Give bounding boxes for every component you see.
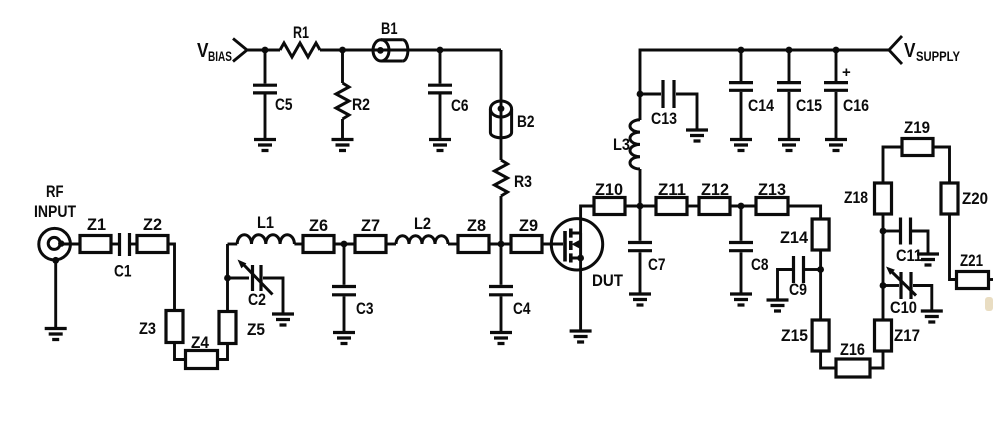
wire Z12 to Z13 xyxy=(730,205,756,208)
ground C4 xyxy=(490,333,512,344)
node junction C4 R3 xyxy=(498,241,505,248)
ground C11 xyxy=(917,254,939,265)
svg-text:DUT: DUT xyxy=(592,272,623,290)
node junction C8 xyxy=(738,203,745,210)
ground R2 xyxy=(332,140,354,151)
wire DUT drain up to Z10 xyxy=(581,206,594,233)
ferrite bead B2 xyxy=(490,101,534,138)
capacitor C1 xyxy=(114,233,132,281)
svg-text:SUPPLY: SUPPLY xyxy=(916,49,960,64)
wire C1 to Z2 xyxy=(131,243,137,246)
resistor R1 xyxy=(280,24,320,57)
node junction C13 tap xyxy=(637,91,644,98)
wire Z10 to Z11 xyxy=(625,205,656,208)
svg-text:C2: C2 xyxy=(248,291,266,309)
ground C3 xyxy=(333,333,355,344)
capacitor C10 variable xyxy=(883,267,932,318)
capacitor C7 xyxy=(628,206,666,293)
ground C15 xyxy=(778,140,800,151)
wire corner to L1 xyxy=(228,243,238,246)
svg-text:Z16: Z16 xyxy=(840,341,865,359)
svg-text:L3: L3 xyxy=(613,136,630,154)
ground RF input xyxy=(45,329,67,340)
inductor L2 xyxy=(396,215,448,244)
Z5 xyxy=(219,312,265,344)
ground C2 xyxy=(272,314,294,325)
svg-text:V: V xyxy=(904,40,916,62)
wire Z3 to Z4 xyxy=(175,343,186,360)
svg-text:RF: RF xyxy=(46,183,64,201)
svg-text:Z21: Z21 xyxy=(960,252,983,270)
wire Z19 to Z20 xyxy=(933,147,950,183)
svg-text:C10: C10 xyxy=(890,299,917,317)
wire L2 to Z8 xyxy=(448,243,458,246)
svg-text:C4: C4 xyxy=(513,300,531,318)
node junction C3 xyxy=(341,241,348,248)
node junction C15 xyxy=(786,47,793,54)
wire Z1 to C1 xyxy=(111,243,118,246)
wire Z18 to Z19 xyxy=(883,147,902,183)
svg-text:Z17: Z17 xyxy=(894,327,920,345)
svg-text:C15: C15 xyxy=(796,97,822,115)
Z16 xyxy=(836,341,870,377)
svg-text:C5: C5 xyxy=(275,96,293,114)
wire Z14 to Z15 xyxy=(819,250,822,320)
node VBIAS terminal xyxy=(197,39,247,65)
capacitor C4 xyxy=(489,244,531,332)
svg-text:Z18: Z18 xyxy=(844,189,868,207)
svg-text:Z5: Z5 xyxy=(247,321,265,339)
wire Z21 to edge xyxy=(989,278,993,281)
wire Z16 to Z17 xyxy=(870,351,883,368)
wire L1 to Z6 xyxy=(294,243,303,246)
svg-text:Z19: Z19 xyxy=(904,119,930,137)
svg-text:Z7: Z7 xyxy=(361,217,380,235)
svg-text:R3: R3 xyxy=(514,173,532,191)
svg-text:C6: C6 xyxy=(451,97,469,115)
resistor R2 xyxy=(336,50,370,139)
Z12 xyxy=(699,181,730,215)
wire DUT source to ground xyxy=(579,258,582,330)
capacitor C3 xyxy=(332,244,374,332)
node VSUPPLY terminal xyxy=(889,36,960,64)
decorative smudge xyxy=(985,297,993,311)
svg-text:R2: R2 xyxy=(352,96,370,114)
wire Z4 to Z5 xyxy=(218,344,228,360)
wire Z7 to L2 xyxy=(386,243,396,246)
svg-text:C9: C9 xyxy=(789,281,807,299)
ground DUT source xyxy=(570,331,592,342)
svg-text:B2: B2 xyxy=(517,113,535,131)
Z8 xyxy=(458,217,489,253)
node junction C5 xyxy=(262,47,269,54)
ground C16 xyxy=(825,140,847,151)
svg-text:R1: R1 xyxy=(293,24,309,42)
svg-text:C3: C3 xyxy=(356,300,374,318)
wire Z17 up to Z18 xyxy=(882,214,885,320)
node junction C10 tap xyxy=(880,282,887,289)
wire Z9 to DUT gate xyxy=(542,243,563,246)
svg-text:C7: C7 xyxy=(648,256,666,274)
wire bias drop to gate node xyxy=(500,50,503,160)
capacitor C5 xyxy=(253,50,293,139)
node junction R2 xyxy=(339,47,346,54)
svg-text:INPUT: INPUT xyxy=(34,203,76,221)
capacitor C14 xyxy=(729,50,775,139)
svg-text:Z15: Z15 xyxy=(781,327,808,345)
wire vbias to R1 xyxy=(247,49,280,52)
svg-text:C13: C13 xyxy=(651,110,677,128)
svg-text:C16: C16 xyxy=(843,97,869,115)
wire Z5 up to L1 xyxy=(226,244,229,312)
wire Z6 to Z7 xyxy=(334,243,355,246)
Z3 xyxy=(139,311,183,343)
ground C6 xyxy=(429,140,451,151)
capacitor C2 variable xyxy=(228,260,284,314)
svg-text:Z2: Z2 xyxy=(143,216,162,234)
node junction C9 tap xyxy=(817,266,824,273)
transistor DUT mosfet xyxy=(551,219,623,290)
wire Z20 down to Z21 xyxy=(950,214,957,280)
node junction L3 C7 xyxy=(637,203,644,210)
svg-text:Z11: Z11 xyxy=(658,181,686,199)
svg-text:L1: L1 xyxy=(257,214,274,232)
svg-text:B1: B1 xyxy=(381,20,398,38)
Z14 xyxy=(780,219,829,250)
svg-text:Z8: Z8 xyxy=(467,217,486,235)
svg-text:Z20: Z20 xyxy=(962,190,988,208)
Z19 xyxy=(902,119,933,156)
Z1 xyxy=(80,216,111,253)
svg-text:L2: L2 xyxy=(414,215,431,233)
Z4 xyxy=(186,334,218,369)
node junction C6 xyxy=(437,47,444,54)
Z18 xyxy=(844,183,892,214)
svg-text:BIAS: BIAS xyxy=(208,49,232,64)
svg-text:C11: C11 xyxy=(896,247,922,265)
ground C5 xyxy=(254,140,276,151)
svg-text:Z13: Z13 xyxy=(758,181,786,199)
ferrite bead B1 xyxy=(373,20,408,61)
node junction C2 tap xyxy=(224,275,231,282)
svg-text:Z1: Z1 xyxy=(87,216,106,234)
wire connector to Z1 xyxy=(61,243,80,246)
Z20 xyxy=(941,183,988,214)
svg-text:C8: C8 xyxy=(751,256,769,274)
ground C10 xyxy=(921,311,943,322)
ground C13 xyxy=(686,130,708,141)
Z2 xyxy=(137,216,168,253)
svg-text:Z12: Z12 xyxy=(701,181,729,199)
node RF INPUT label xyxy=(34,183,76,221)
wire R1 to corner x501 xyxy=(320,49,501,52)
capacitor C8 xyxy=(729,206,769,293)
svg-text:+: + xyxy=(842,64,851,81)
node junction C14 xyxy=(738,47,745,54)
wire L3 to supply rail xyxy=(640,50,889,120)
connector RF input jack xyxy=(39,228,71,263)
capacitor C6 xyxy=(428,50,469,139)
svg-text:Z14: Z14 xyxy=(780,229,809,247)
node junction C16 xyxy=(833,47,840,54)
svg-text:Z9: Z9 xyxy=(519,217,538,235)
ground C8 xyxy=(730,294,752,305)
resistor R3 xyxy=(495,160,533,244)
svg-text:C14: C14 xyxy=(748,97,775,115)
svg-text:Z10: Z10 xyxy=(595,181,623,199)
inductor L1 xyxy=(237,214,294,244)
Z7 xyxy=(355,217,386,253)
capacitor C11 xyxy=(883,218,928,266)
Z15 xyxy=(781,320,829,351)
svg-text:C1: C1 xyxy=(114,263,132,281)
inductor L3 xyxy=(613,120,640,206)
wire Z8 to Z9 xyxy=(489,243,511,246)
wire Z15 to Z16 xyxy=(821,351,836,368)
wire Z11 to Z12 xyxy=(687,205,699,208)
capacitor C16 polarized xyxy=(824,50,869,139)
svg-text:Z6: Z6 xyxy=(309,217,328,235)
ground C14 xyxy=(730,140,752,151)
Z9 xyxy=(511,217,542,253)
Z21 xyxy=(957,252,989,289)
svg-text:Z3: Z3 xyxy=(139,320,156,338)
Z11 xyxy=(656,181,687,215)
Z17 xyxy=(875,320,921,351)
wire connector to ground xyxy=(54,260,57,327)
ground C9 xyxy=(767,300,789,311)
Z10 xyxy=(594,181,625,215)
capacitor C15 xyxy=(777,50,822,139)
node junction C11 tap xyxy=(880,228,887,235)
ground C7 xyxy=(629,294,651,305)
capacitor C9 xyxy=(778,256,821,299)
wire Z13 to Z14 xyxy=(788,206,821,219)
Z6 xyxy=(303,217,334,253)
capacitor C13 xyxy=(640,80,697,129)
svg-text:Z4: Z4 xyxy=(191,334,210,352)
Z13 xyxy=(756,181,788,215)
wire Z2 down to Z3 xyxy=(168,244,175,311)
